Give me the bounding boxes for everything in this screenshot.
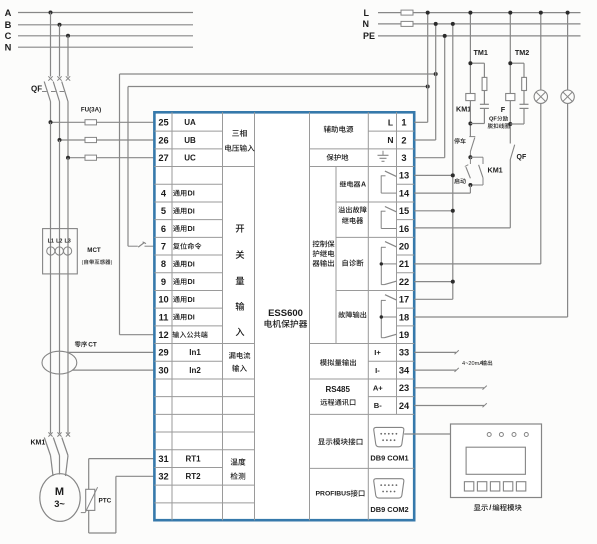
zero-sequence CT label: [75, 341, 97, 348]
terminal 19: [399, 330, 409, 340]
svg-text:DI: DI: [188, 189, 195, 198]
svg-text:23: 23: [399, 383, 409, 393]
terminal 34: [399, 365, 410, 375]
terminal 18: [399, 312, 409, 322]
ESS600 protector outline: [154, 112, 414, 520]
svg-text:L1: L1: [48, 238, 54, 244]
connector DB9 COM1: [370, 427, 408, 462]
label 4-20mA output: [462, 360, 492, 367]
wire CT to terminal 30: [73, 369, 155, 371]
supply line L: [364, 8, 581, 18]
display/programming module: [451, 424, 542, 498]
wire phase C QF to row27: [67, 102, 69, 158]
symbol A+: [373, 384, 383, 393]
reset command contact (terminal 7): [128, 242, 154, 247]
label control relay output: [313, 240, 335, 266]
svg-text:22: 22: [399, 277, 409, 287]
svg-text:31: 31: [158, 454, 168, 464]
svg-text:UA: UA: [184, 118, 196, 127]
label three-phase voltage input: [225, 130, 254, 152]
svg-text:): ): [111, 260, 113, 266]
table column dividers: [172, 112, 397, 520]
label self-diagnosis: [343, 259, 364, 266]
supply line N: [363, 19, 581, 29]
terminal 14: [399, 188, 410, 198]
svg-text:19: 19: [399, 330, 409, 340]
terminal 9: [161, 277, 195, 287]
svg-text:L: L: [388, 117, 393, 127]
wire terminal 33 (I+): [414, 350, 459, 354]
svg-text:4: 4: [161, 188, 167, 198]
symbol B-: [374, 401, 382, 410]
node tap B: [58, 23, 62, 27]
label leakage current input: [229, 352, 250, 372]
terminal 33: [399, 348, 409, 358]
circuit breaker QF (3-pole): [31, 76, 70, 101]
wire L wrap to reset command: [128, 85, 430, 247]
svg-text:1: 1: [401, 118, 406, 128]
wire terminal 13: [414, 173, 455, 177]
svg-text:B: B: [5, 20, 12, 30]
terminal 20: [399, 242, 409, 252]
terminal 2 N: [387, 135, 406, 145]
wire terminal 22: [414, 280, 455, 284]
svg-text:25: 25: [158, 118, 168, 128]
svg-text:26: 26: [158, 135, 168, 145]
wire phase B QF to row26: [59, 102, 61, 141]
svg-text:TM2: TM2: [515, 48, 529, 57]
terminal 23: [399, 383, 409, 393]
svg-text:FU(3A): FU(3A): [81, 107, 101, 114]
svg-text:ESS600: ESS600: [268, 308, 303, 319]
svg-text:DB9 COM1: DB9 COM1: [370, 454, 408, 463]
label ESS600 motor protector: [265, 308, 308, 328]
wire lamp HL1 to terminal 21: [414, 103, 541, 264]
wire terminal 24 (B-): [414, 403, 487, 407]
svg-text:N: N: [363, 19, 370, 29]
terminal 11: [159, 312, 195, 322]
svg-text:21: 21: [399, 259, 409, 269]
svg-text:6: 6: [161, 224, 166, 234]
lamp HL2: [561, 11, 574, 104]
fuse FU(3A) label: [81, 107, 101, 114]
svg-text:A: A: [5, 8, 12, 18]
svg-text:UC: UC: [184, 154, 196, 163]
svg-text:33: 33: [399, 348, 409, 358]
terminal 16: [399, 224, 409, 234]
svg-text:QF: QF: [31, 84, 42, 93]
svg-text:C: C: [5, 31, 12, 41]
table row lines right: [310, 131, 415, 468]
terminal 22: [399, 277, 409, 287]
label QF shunt trip coil: [488, 116, 510, 129]
bus line C: [5, 31, 193, 41]
terminal 21: [399, 259, 409, 269]
svg-text:/: /: [489, 503, 491, 512]
fuse FU phase B: [58, 137, 155, 142]
svg-text:PROFIBUS: PROFIBUS: [316, 491, 352, 498]
contactor coil KM1: [456, 94, 475, 114]
wire terminal 17: [414, 298, 453, 300]
svg-text:17: 17: [399, 295, 409, 305]
label switching input (vertical): [236, 225, 245, 336]
auxiliary contact QF (NO): [510, 145, 527, 161]
svg-text:DI: DI: [188, 313, 195, 322]
supply line PE: [363, 31, 581, 41]
svg-text:KM1: KM1: [456, 105, 471, 114]
terminal 32 RT2: [158, 472, 201, 482]
terminal 6: [161, 224, 195, 234]
terminal 4: [161, 188, 195, 198]
contactor KM1 main poles: [31, 432, 71, 455]
current transformer MCT: [43, 229, 113, 274]
terminal 5: [161, 206, 195, 216]
wire terminal 34 (I-): [414, 368, 459, 372]
label fault output: [338, 311, 366, 318]
svg-text:3~: 3~: [54, 499, 65, 509]
wire KM1 coil to stop button: [468, 101, 472, 137]
wire N to terminal 2: [414, 22, 438, 140]
svg-text:F: F: [501, 105, 506, 114]
fuse FU phase C: [66, 155, 154, 160]
wire phase A drop to QF: [50, 13, 52, 77]
svg-text:PTC: PTC: [99, 498, 112, 505]
svg-text:12: 12: [158, 330, 168, 340]
terminal 24: [399, 401, 410, 411]
svg-text:DI: DI: [188, 295, 195, 304]
label PROFIBUS interface: [316, 490, 365, 498]
svg-text:DI: DI: [188, 224, 195, 233]
wire phase B drop to QF: [59, 25, 61, 77]
svg-text:32: 32: [158, 472, 168, 482]
wire PE to terminal 3: [414, 34, 447, 158]
wire phase B down to contactor: [59, 140, 61, 433]
label output-fault relay: [338, 206, 366, 224]
svg-text:RS485: RS485: [325, 385, 350, 394]
table row lines left: [154, 131, 254, 503]
svg-text:A: A: [361, 182, 366, 189]
svg-text:8: 8: [161, 259, 166, 269]
relay contact 17-18-19: [380, 295, 397, 338]
wire phase C drop to QF: [67, 36, 69, 77]
ground symbol terminal 3: [378, 151, 407, 163]
svg-text:M: M: [55, 486, 64, 498]
terminal 8: [161, 259, 195, 269]
svg-text:N: N: [5, 43, 12, 53]
svg-text:10: 10: [158, 295, 168, 305]
svg-text:In2: In2: [189, 366, 201, 375]
wire phase A QF to row25: [50, 102, 52, 123]
terminal 12 input common: [158, 330, 207, 340]
svg-text:27: 27: [158, 153, 168, 163]
svg-text:PE: PE: [363, 31, 375, 41]
svg-text:29: 29: [158, 348, 168, 358]
svg-text:18: 18: [399, 312, 409, 322]
node tap C: [66, 34, 70, 38]
svg-text:5: 5: [161, 206, 166, 216]
svg-text:11: 11: [159, 312, 169, 322]
wire phase C down to contactor: [67, 158, 69, 434]
auxiliary contact KM1: [470, 157, 502, 185]
svg-text:QF: QF: [489, 117, 497, 123]
terminal 17: [399, 295, 409, 305]
svg-text:A+: A+: [373, 384, 383, 393]
label relay A: [340, 181, 366, 189]
wire N wrap to input common (terminal 12): [120, 72, 438, 335]
terminal 7: [161, 242, 202, 252]
trip coil F (QF shunt release): [501, 94, 515, 115]
label display module interface: [318, 438, 362, 445]
wire COM1 to display module: [404, 433, 450, 435]
label analog output: [320, 359, 356, 366]
bus line N: [5, 43, 193, 53]
motor M 3~: [40, 474, 80, 522]
svg-text:2: 2: [401, 135, 406, 145]
wire terminal 31 to PTC: [89, 459, 155, 490]
svg-text:30: 30: [158, 365, 168, 375]
relay contact 20-21-22: [380, 242, 397, 285]
svg-text:DI: DI: [188, 277, 195, 286]
terminal 31 RT1: [158, 454, 201, 464]
svg-text:L3: L3: [64, 238, 70, 244]
label auxiliary power: [324, 126, 354, 133]
label temperature detection: [231, 458, 246, 479]
snubber TM2 (RC): [508, 48, 529, 124]
terminal 13: [399, 171, 409, 181]
wire phase A to motor: [51, 456, 54, 477]
bus line A: [5, 8, 193, 18]
stop button (NC): [454, 137, 475, 158]
svg-text:DI: DI: [188, 259, 195, 268]
svg-text:DB9 COM2: DB9 COM2: [370, 505, 408, 514]
node start bottom: [468, 183, 472, 187]
svg-text:RT2: RT2: [185, 472, 201, 481]
svg-text:CT: CT: [88, 342, 97, 349]
wire terminal 23 (A+): [414, 386, 487, 390]
relay contact 13-14: [381, 171, 397, 193]
wire QF contact to terminal 16: [414, 160, 510, 228]
node stop/start junction: [468, 155, 472, 159]
svg-text:MCT: MCT: [87, 247, 101, 254]
svg-text:7: 7: [161, 242, 166, 252]
wire L to KM1 coil: [468, 11, 472, 94]
thermistor PTC: [81, 487, 112, 512]
terminal 29 In1: [158, 348, 201, 358]
bus line B: [5, 20, 193, 30]
fuse FU phase A: [49, 120, 155, 125]
terminal 26 UB: [158, 135, 196, 145]
svg-text:N: N: [387, 135, 393, 145]
label display/programming module: [474, 503, 522, 512]
svg-text:KM1: KM1: [488, 166, 503, 175]
label RS485 remote port: [320, 385, 355, 406]
svg-text:13: 13: [399, 171, 409, 181]
svg-text:20: 20: [399, 242, 409, 252]
connector DB9 COM2: [370, 479, 408, 514]
svg-text:UB: UB: [184, 136, 196, 145]
start button (NO): [454, 157, 470, 184]
terminal 30 In2: [158, 365, 201, 375]
wire phase B to motor: [59, 456, 61, 475]
terminal 1 L: [388, 117, 407, 127]
svg-text:L: L: [364, 8, 370, 18]
symbol I+: [374, 348, 381, 357]
zero-sequence CT ring: [42, 351, 77, 374]
svg-text:9: 9: [161, 277, 166, 287]
label protective earth: [327, 154, 349, 161]
svg-text:DI: DI: [188, 206, 195, 215]
terminal 27 UC: [158, 153, 196, 163]
svg-text:3: 3: [401, 153, 406, 163]
svg-text:(: (: [82, 260, 84, 266]
wire lamp HL2 to terminal 18: [414, 103, 567, 317]
wire phase A down to contactor: [50, 122, 52, 433]
wire terminal 15: [414, 209, 455, 213]
wire to terminal 14: [414, 185, 470, 193]
svg-text:L2: L2: [56, 238, 62, 244]
svg-text:KM1: KM1: [31, 439, 46, 446]
node tap A: [49, 11, 53, 15]
svg-text:I+: I+: [374, 348, 381, 357]
terminal 10: [158, 295, 194, 305]
lamp HL1: [534, 11, 547, 104]
svg-text:QF: QF: [517, 154, 527, 161]
svg-text:16: 16: [399, 224, 409, 234]
svg-text:B-: B-: [374, 401, 382, 410]
svg-text:4~20mA: 4~20mA: [462, 361, 483, 367]
svg-text:15: 15: [399, 206, 409, 216]
svg-text:14: 14: [399, 188, 410, 198]
svg-text:In1: In1: [189, 348, 201, 357]
symbol I-: [375, 366, 380, 375]
svg-text:I-: I-: [375, 366, 380, 375]
wire L to trip coil F: [508, 11, 512, 94]
relay contact 15-16: [381, 207, 397, 229]
wire F coil to QF contact: [508, 101, 512, 144]
wire L to terminal 1: [414, 11, 430, 123]
wire PTC to terminal 32: [89, 476, 155, 533]
svg-text:34: 34: [399, 365, 410, 375]
svg-text:TM1: TM1: [474, 48, 488, 57]
terminal 15: [399, 206, 409, 216]
svg-text:24: 24: [399, 401, 410, 411]
wire N chain to relay terminals: [451, 22, 455, 299]
snubber TM1 (RC): [468, 48, 489, 124]
wire CT to terminal 29: [67, 351, 154, 353]
svg-text:RT1: RT1: [185, 454, 201, 463]
terminal 25 UA: [158, 118, 196, 128]
wire phase C to motor: [66, 456, 69, 477]
